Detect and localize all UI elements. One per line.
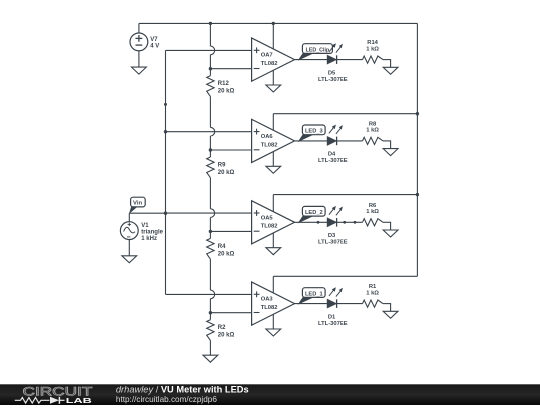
resistor R9 (207, 157, 235, 178)
svg-text:R8: R8 (369, 122, 377, 128)
svg-text:drhawley / VU Meter with LEDs: drhawley / VU Meter with LEDs (116, 385, 249, 395)
ground stage 3 output (383, 230, 398, 237)
op-amp OA6 (252, 114, 295, 167)
svg-text:LED_Clip: LED_Clip (306, 47, 330, 53)
resistor R8 1 k (363, 122, 384, 145)
wire noninverting input stage 2 (166, 131, 252, 133)
ground ladder bottom (203, 355, 218, 362)
wire inverting input stage 1 (210, 68, 251, 70)
svg-text:20 kΩ: 20 kΩ (218, 333, 235, 339)
svg-text:1 kΩ: 1 kΩ (366, 209, 379, 215)
svg-text:1 kHz: 1 kHz (141, 236, 157, 242)
svg-text:20 kΩ: 20 kΩ (218, 89, 235, 95)
node Vin junctions (164, 103, 167, 215)
node Vin flag (129, 197, 145, 214)
svg-text:R9: R9 (218, 163, 226, 169)
resistor R12 (207, 76, 235, 97)
ground op-amp OA5 (266, 248, 281, 255)
svg-text:4 V: 4 V (150, 43, 159, 49)
wire inverting input stage 2 (210, 149, 251, 151)
ground below V1 (122, 256, 137, 263)
svg-text:V1: V1 (141, 223, 149, 229)
resistor R1 1 k (363, 284, 384, 307)
svg-text:R14: R14 (367, 40, 378, 46)
svg-text:R4: R4 (218, 244, 226, 250)
footer url (116, 395, 217, 404)
svg-text:1 kΩ: 1 kΩ (366, 46, 379, 52)
svg-text:LED_2: LED_2 (305, 210, 323, 216)
wire inverting input stage 4 (210, 312, 251, 314)
svg-text:Vin: Vin (133, 201, 142, 207)
resistor R4 (207, 238, 235, 259)
wire R6 to ground (383, 222, 391, 230)
svg-text:V7: V7 (150, 37, 158, 43)
ground op-amp OA3 (266, 329, 281, 336)
wire inverting input stage 3 (210, 230, 251, 232)
wire noninverting input stage 3 (166, 212, 252, 214)
wire LED to R1 (337, 303, 363, 305)
svg-text:20 kΩ: 20 kΩ (218, 251, 235, 257)
svg-text:R2: R2 (218, 325, 226, 331)
svg-text:OA3: OA3 (261, 297, 274, 303)
wire LED to R6 (317, 221, 363, 224)
wire R14 to ground (383, 59, 391, 67)
svg-text:R12: R12 (218, 81, 230, 87)
svg-text:20 kΩ: 20 kΩ (218, 170, 235, 176)
svg-text:TL082: TL082 (261, 224, 278, 230)
voltage source V7 (130, 23, 159, 67)
node LED_Clip flag (298, 44, 333, 61)
wire output stage 3 (295, 221, 328, 223)
CircuitLab logo (15, 386, 93, 405)
wire R1 to ground (383, 303, 391, 311)
wire stage 2 supply rail (273, 113, 417, 115)
svg-text:OA6: OA6 (261, 134, 274, 140)
svg-text:OA5: OA5 (261, 215, 274, 221)
LED D4 LTL-307EE (318, 125, 348, 165)
wire stage 4 supply rail (273, 275, 417, 277)
wire stage 3 supply rail (273, 194, 417, 196)
wire LED to R14 (337, 59, 363, 61)
svg-text:1 kΩ: 1 kΩ (366, 128, 379, 134)
svg-text:TL082: TL082 (261, 305, 278, 311)
node LED_3 flag (298, 125, 326, 142)
wire Vin vertical distribution (165, 50, 167, 294)
ground below V7 (132, 67, 147, 74)
ground stage 1 output (383, 67, 398, 74)
svg-text:D4: D4 (328, 152, 336, 158)
wire Vin to ladder (129, 212, 165, 214)
LED D1 LTL-307EE (318, 287, 348, 327)
svg-text:TL082: TL082 (261, 142, 278, 148)
svg-text:D1: D1 (328, 314, 336, 320)
LED D5 LTL-307EE (318, 43, 348, 83)
resistor R2 (207, 320, 235, 341)
op-amp OA3 (252, 276, 295, 329)
wire ladder bottom (209, 340, 211, 355)
svg-text:TL082: TL082 (261, 61, 278, 67)
svg-text:1 kΩ: 1 kΩ (366, 290, 379, 296)
svg-text:D5: D5 (328, 70, 336, 76)
footer title (116, 385, 249, 395)
wire noninverting input stage 1 (166, 49, 252, 51)
svg-text:OA7: OA7 (261, 53, 273, 59)
wire right power rail (416, 23, 418, 276)
svg-text:LTL-307EE: LTL-307EE (318, 158, 348, 164)
svg-text:R6: R6 (369, 203, 377, 209)
svg-text:D3: D3 (328, 233, 336, 239)
svg-text:LAB: LAB (66, 397, 92, 405)
node ladder taps (209, 67, 212, 314)
svg-text:LTL-307EE: LTL-307EE (318, 77, 348, 83)
node LED_1 flag (298, 288, 326, 305)
svg-text:triangle: triangle (141, 230, 163, 236)
wire resistor ladder (210, 23, 214, 319)
svg-text:http://circuitlab.com/czpjdp6: http://circuitlab.com/czpjdp6 (116, 395, 217, 404)
op-amp OA5 (252, 195, 295, 248)
wire output stage 1 (295, 59, 328, 61)
voltage source V1 (120, 213, 163, 255)
op-amp OA7 (252, 23, 295, 85)
ground stage 2 output (383, 149, 398, 156)
svg-text:R1: R1 (369, 284, 377, 290)
svg-text:LTL-307EE: LTL-307EE (318, 240, 348, 246)
wire LED to R8 (337, 140, 363, 142)
footer bar (0, 384, 540, 405)
wire output stage 4 (295, 303, 328, 305)
wire R8 to ground (383, 140, 391, 148)
node LED_2 flag (298, 206, 326, 223)
wire noninverting input stage 4 (166, 293, 252, 295)
resistor R6 1 k (363, 203, 384, 226)
svg-text:LED_3: LED_3 (305, 129, 323, 135)
resistor R14 1 k (363, 40, 384, 63)
node rail junctions (209, 22, 419, 197)
svg-text:LED_1: LED_1 (305, 291, 323, 297)
ground stage 4 output (383, 311, 398, 318)
wire top +4V rail (139, 22, 418, 24)
wire output stage 2 (295, 140, 328, 142)
ground op-amp OA6 (266, 166, 281, 173)
ground op-amp OA7 (266, 85, 281, 92)
svg-text:LTL-307EE: LTL-307EE (318, 321, 348, 327)
LED D3 LTL-307EE (318, 206, 348, 246)
